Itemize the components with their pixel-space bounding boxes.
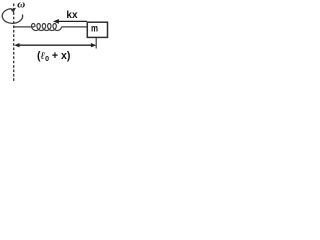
force arrow kx (pointing left) — [58, 20, 88, 22]
svg-text:(ℓ0 + x): (ℓ0 + x) — [37, 50, 70, 63]
rotation arrow arc — [2, 9, 22, 24]
dimension line with two arrowheads — [17, 44, 94, 46]
diagram: rotating spring-mass system — [0, 0, 110, 82]
extension line below mass — [95, 38, 97, 49]
svg-text:ω: ω — [17, 0, 25, 11]
svg-text:kx: kx — [66, 10, 78, 21]
spring coil — [32, 24, 62, 31]
wire: spring to mass — [61, 26, 87, 28]
mass box m — [87, 22, 107, 37]
axis dashed line — [13, 4, 15, 82]
svg-text:m: m — [91, 24, 98, 35]
wire: axis to spring — [14, 26, 35, 28]
rotation arrowhead — [10, 8, 16, 13]
